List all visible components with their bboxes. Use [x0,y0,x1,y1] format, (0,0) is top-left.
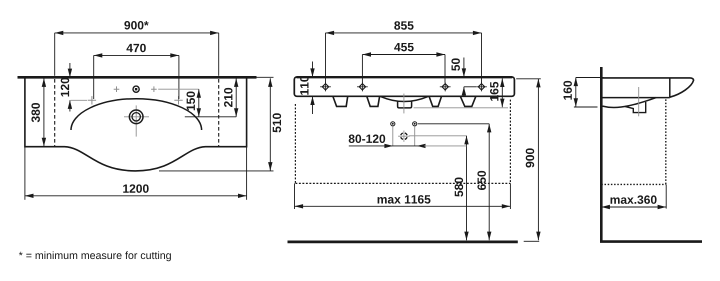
tap hole cross left [114,86,120,92]
dimension max.360 line [601,184,666,209]
bracket 1 [333,96,348,106]
clearance dashed left [294,104,296,183]
dimension 470 label [126,44,145,53]
clearance dashed right [509,100,511,184]
clearance dashed bottom [295,182,510,184]
basin underside (side view) [603,98,657,108]
dimension 900 label [526,148,535,167]
clearance dotted horizontal (side) [601,183,666,185]
extension dashed left (900*) [54,79,56,146]
dimension 650 label [477,171,486,190]
dimension 455 line [362,52,445,83]
dimension 380 line [42,78,46,146]
underside reference line [414,107,508,109]
wall line (plan view) [18,76,257,79]
dimension 120 arrows [68,63,87,112]
bracket 2 [367,96,380,106]
alt tap hole cross left [88,96,96,104]
dimension 165 label [490,82,499,101]
mounting bolt 3 [440,82,451,91]
dimension 510 label [273,113,282,132]
dimension 855 label [394,21,413,30]
wall line (side view) [600,67,603,241]
mounting bolt 1 [320,82,331,91]
bracket 3 [429,96,441,106]
mounting bolt 4 [476,82,487,91]
centerline (front view) [403,94,405,114]
dimension 380 label [31,103,40,122]
basin slab (front view) [294,77,514,96]
dimension 50 label [451,58,460,70]
footnote text [19,251,171,261]
dimension 150 line [158,89,201,117]
drain centerlines (plan) [124,105,149,136]
dimension 510 line [159,77,274,171]
tap hole cross right [151,86,157,92]
dimension 455 label [394,43,414,51]
centerline (side view) [638,87,640,116]
clearance dotted vertical (side) [665,99,667,184]
dimension 120 label [61,78,70,97]
floor line (side view) [600,240,702,243]
wall outlet circle right [413,122,417,126]
basin outline (plan view) [25,78,247,171]
dimension 80-120 line [349,144,467,148]
dimension 580 line [409,136,469,240]
dimension 855 line [326,31,482,83]
floor line (front view) [288,240,518,243]
inner bowl rim (plan view) [71,99,202,130]
dimension 160 line [574,78,604,108]
dimension 900* label [124,21,148,30]
wall outlet circle left [391,122,395,126]
drain box (front view) [398,101,412,108]
dimension 900 line [516,79,541,242]
drain trap symbol (front) [398,131,410,142]
dimension max 1165 label [378,195,431,204]
dimension 210 line [185,78,239,117]
dimension 50 arrows [462,58,476,96]
basin profile (side view) [603,78,694,98]
dimension 580 label [455,177,464,196]
dimension max.360 label [611,195,657,204]
dimension 1200 line [25,148,247,200]
outlet drop lines [393,127,415,146]
dimension 110 arrows [310,62,314,115]
dimension 470 line [94,53,179,99]
extension dashed right (900*) [218,79,220,146]
tap hole (center, plan) [133,86,139,92]
dimension 80-120 label [349,135,385,144]
dimension 110 label [300,76,309,95]
dimension 150 label [187,91,196,110]
drain hole (plan) [129,110,143,124]
dimension max 1165 line [295,183,511,209]
mounting bolt 2 [357,82,368,91]
dimension 900* line [55,31,219,76]
dimension 160 label [563,81,572,100]
bowl underside (front view) [380,96,428,101]
dimension 1200 label [123,184,148,193]
dimension 650 line [418,124,492,240]
drain trap (side view) [625,102,646,113]
alt tap hole cross right [174,96,182,104]
dimension 210 label [224,88,233,107]
dimension 165 line [500,78,504,107]
bracket 4 [460,96,475,106]
